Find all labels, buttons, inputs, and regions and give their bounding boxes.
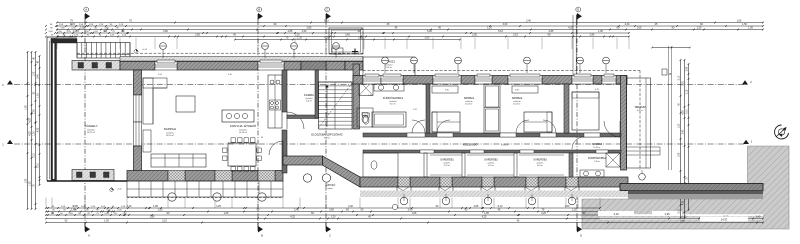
left dimension chain 1 — [26, 51, 29, 210]
svg-text:3,15: 3,15 — [34, 153, 36, 158]
wall kamra east — [315, 70, 319, 118]
svg-text:5,10: 5,10 — [38, 163, 40, 168]
svg-text:7,43 m²: 7,43 m² — [594, 160, 600, 163]
svg-text:18,37 m²: 18,37 m² — [87, 131, 95, 134]
south columns circles — [400, 194, 576, 205]
svg-text:SZOBA3: SZOBA3 — [592, 142, 603, 146]
svg-text:5,10: 5,10 — [498, 30, 503, 33]
vestibule south wall — [283, 156, 323, 165]
top extension lines — [57, 38, 629, 50]
svg-text:4,25: 4,25 — [683, 200, 685, 205]
bottom dimension chain 3 — [45, 212, 691, 216]
svg-text:2,15: 2,15 — [368, 95, 372, 97]
section axis B vertical — [257, 7, 263, 237]
room label ERKELY — [84, 123, 97, 134]
svg-text:5,10: 5,10 — [679, 75, 681, 80]
svg-text:parketta: parketta — [514, 100, 522, 103]
interior dim texts — [158, 74, 599, 161]
terasz2 dim extension lines — [651, 46, 691, 170]
right dimension chain 3 — [687, 63, 690, 211]
svg-text:2,40: 2,40 — [294, 209, 299, 212]
svg-text:A: A — [85, 8, 87, 12]
svg-text:16,35 m²: 16,35 m² — [593, 146, 601, 149]
svg-text:2,85: 2,85 — [472, 34, 477, 37]
svg-text:3,15: 3,15 — [679, 209, 681, 214]
svg-text:B: B — [261, 234, 263, 238]
wall stair east — [353, 64, 360, 129]
level diamond left — [134, 49, 148, 53]
porch columns mid — [303, 174, 330, 182]
svg-text:1,20: 1,20 — [331, 216, 336, 219]
dining table — [223, 138, 262, 171]
bottom dimension chain 1 — [45, 205, 601, 209]
svg-text:TÚZHELY: TÚZHELY — [84, 123, 97, 128]
szoba1 bed — [432, 112, 460, 132]
svg-text:18,32 m²: 18,32 m² — [501, 144, 509, 147]
svg-text:burkolat: burkolat — [306, 97, 313, 100]
entry door — [269, 141, 283, 155]
shower mid — [359, 81, 373, 96]
svg-text:1,05: 1,05 — [224, 212, 229, 215]
svg-text:1,50: 1,50 — [34, 109, 36, 114]
svg-text:1,20: 1,20 — [487, 27, 492, 30]
svg-text:9,17 m²: 9,17 m² — [390, 103, 397, 106]
door living-hall — [287, 112, 304, 129]
svg-text:5,10: 5,10 — [687, 109, 689, 114]
left dimension chain 3 — [34, 51, 37, 210]
svg-text:2,40: 2,40 — [526, 20, 531, 23]
svg-text:2,40: 2,40 — [625, 23, 630, 26]
label GARDROB2 — [484, 159, 498, 167]
dim labels over hatch — [598, 211, 748, 222]
compass symbol — [775, 125, 789, 139]
svg-text:parketta: parketta — [466, 100, 474, 103]
sofa south — [151, 154, 206, 167]
svg-text:1,50: 1,50 — [30, 181, 32, 186]
svg-text:SZOBA1: SZOBA1 — [464, 96, 475, 100]
eaves dashed line living — [77, 52, 363, 54]
plus marker eaves — [352, 49, 358, 55]
svg-text:burkolat: burkolat — [239, 129, 247, 132]
wall kamra south — [287, 115, 318, 119]
svg-text:3,60: 3,60 — [680, 220, 685, 223]
bedroom door arcs — [412, 120, 584, 149]
svg-text:1,20: 1,20 — [297, 37, 302, 40]
svg-text:1,05: 1,05 — [748, 27, 753, 30]
bedroom wing top wall — [353, 74, 627, 84]
svg-text:4,25: 4,25 — [568, 27, 573, 30]
svg-text:3,60: 3,60 — [163, 30, 168, 33]
svg-text:5,95 m²: 5,95 m² — [386, 66, 393, 69]
svg-text:1,50: 1,50 — [565, 205, 570, 208]
top left dense ticks b — [45, 28, 124, 31]
svg-text:1,20: 1,20 — [697, 27, 702, 30]
svg-text:14,37: 14,37 — [721, 218, 728, 222]
svg-text:1,20: 1,20 — [679, 123, 681, 128]
section axis C vertical — [325, 7, 331, 237]
room label SZOBA1 — [464, 96, 475, 106]
svg-text:KAMRA: KAMRA — [304, 93, 314, 97]
bottom extension lines — [46, 198, 600, 209]
bedroom wing east wall — [621, 76, 627, 171]
centerline axis 2 horizontal — [2, 80, 752, 87]
svg-text:2,85: 2,85 — [687, 66, 689, 71]
window bubbles top — [160, 43, 340, 58]
svg-text:C: C — [326, 8, 328, 12]
bath1 sinks — [374, 84, 404, 91]
szoba1 desk — [432, 86, 458, 93]
svg-text:3,60: 3,60 — [503, 23, 508, 26]
deck columns south — [168, 193, 266, 201]
top dimension chain 5 — [56, 34, 630, 38]
svg-text:D: D — [580, 234, 582, 238]
szoba3 bed — [572, 92, 599, 130]
svg-text:1,05: 1,05 — [598, 30, 603, 33]
svg-text:2,85: 2,85 — [358, 37, 363, 40]
wc mid — [357, 108, 373, 127]
eaves strip living — [120, 57, 363, 62]
svg-text:3,15: 3,15 — [162, 220, 167, 223]
room label SZOBA3 — [592, 142, 603, 149]
svg-text:3,60: 3,60 — [425, 37, 430, 40]
centerline axis 1 horizontal — [2, 140, 753, 147]
svg-text:5,10: 5,10 — [427, 30, 432, 33]
svg-text:1,50: 1,50 — [104, 220, 109, 223]
diagonal wall stair down — [323, 156, 361, 187]
terasz2 outline — [627, 78, 651, 168]
svg-text:parketta: parketta — [166, 132, 174, 135]
bottom left dense ticks b — [47, 210, 126, 213]
living top wall — [120, 60, 363, 70]
svg-text:1,85: 1,85 — [150, 216, 155, 219]
staircase — [319, 82, 353, 129]
deck dashed edge — [127, 197, 283, 199]
svg-text:1,85: 1,85 — [679, 152, 681, 157]
svg-text:KONYHA, ÉTKEZŐ: KONYHA, ÉTKEZŐ — [230, 123, 257, 128]
porch west wall thick — [51, 39, 57, 182]
corner sofa — [143, 78, 167, 124]
bottom left dense ticks a — [47, 206, 129, 209]
corridor north wall — [363, 133, 621, 137]
halo strips in hatch — [600, 214, 763, 219]
svg-text:16,13 m²: 16,13 m² — [513, 103, 521, 106]
svg-text:24,05 m²: 24,05 m² — [239, 131, 247, 134]
svg-text:4,13 m²: 4,13 m² — [488, 164, 494, 167]
svg-text:1,85: 1,85 — [26, 178, 28, 183]
svg-text:2,85: 2,85 — [307, 27, 312, 30]
svg-text:3,60: 3,60 — [329, 209, 334, 212]
circle marker bottom dim — [392, 204, 397, 209]
svg-text:4,25: 4,25 — [595, 89, 599, 91]
right dimension chain 2 — [683, 59, 686, 219]
svg-text:2,40: 2,40 — [38, 74, 40, 79]
room label KAMRA — [304, 93, 314, 103]
footing strip under bedroom wing — [360, 191, 628, 198]
porch post band top — [72, 61, 120, 71]
bottom left dense ticks c — [47, 213, 130, 216]
top dimension chain 4 — [56, 30, 630, 34]
kitchen counter — [268, 75, 282, 128]
svg-text:2,40: 2,40 — [348, 205, 353, 208]
terasz1 outline — [363, 57, 415, 76]
wall furdo2 west — [569, 153, 573, 177]
svg-text:4,25: 4,25 — [290, 216, 295, 219]
svg-text:4,25: 4,25 — [30, 131, 32, 136]
svg-text:KÖZLEKEDŐ: KÖZLEKEDŐ — [463, 144, 478, 147]
window bubble terasz2 — [639, 170, 646, 180]
szoba2 bed — [524, 112, 552, 132]
label LEPCSO — [325, 182, 336, 190]
svg-text:1,35: 1,35 — [664, 212, 670, 216]
deck grid south — [127, 181, 283, 197]
porch post band bottom — [72, 170, 114, 181]
bedroom wing bottom wall — [360, 177, 628, 194]
left dimension chain 4 — [38, 55, 41, 186]
svg-text:5,10: 5,10 — [324, 20, 329, 23]
top dimension chain 1 — [56, 20, 764, 24]
svg-text:1,85: 1,85 — [26, 105, 28, 110]
bath1 door — [412, 120, 425, 133]
svg-text:D: D — [577, 8, 579, 12]
svg-text:1,50: 1,50 — [34, 131, 36, 136]
svg-text:parketta: parketta — [537, 161, 544, 164]
bottom dimension chain 2 — [45, 209, 601, 213]
top left dense ticks a — [45, 24, 127, 27]
bottom dimension chain 4 — [45, 216, 764, 220]
chimney box top — [329, 28, 363, 54]
tv board — [143, 130, 151, 152]
svg-text:4,25: 4,25 — [324, 37, 329, 40]
porch bottom edge — [47, 180, 127, 182]
svg-text:2,85: 2,85 — [474, 205, 479, 208]
section axis A vertical — [84, 7, 90, 237]
svg-text:4,42: 4,42 — [228, 74, 232, 76]
svg-text:GARDRÓB1: GARDRÓB1 — [440, 159, 454, 162]
svg-text:38,11 m²: 38,11 m² — [166, 134, 174, 137]
level diamond bottom — [109, 188, 122, 192]
furdo2 sinks — [580, 170, 604, 177]
svg-text:3,60: 3,60 — [345, 34, 350, 37]
top dimension chain 2 — [56, 23, 764, 27]
svg-text:FÜRDŐSZOBA2: FÜRDŐSZOBA2 — [588, 157, 607, 160]
living bottom wall — [127, 171, 283, 182]
gardrob partitions — [424, 153, 517, 177]
room label FURDOSZOBA1 — [383, 95, 404, 106]
hatched ground terrace bottom-right — [582, 146, 789, 229]
section axis D vertical — [576, 7, 582, 237]
svg-text:4,25: 4,25 — [482, 216, 487, 219]
svg-text:+0,15: +0,15 — [142, 49, 148, 51]
svg-text:4,13 m²: 4,13 m² — [444, 164, 450, 167]
svg-text:1,05: 1,05 — [412, 212, 417, 215]
svg-text:2,40: 2,40 — [756, 216, 761, 219]
svg-text:2,85: 2,85 — [590, 34, 595, 37]
corridor south wall — [363, 150, 621, 153]
pergola trellis top-left — [77, 43, 130, 59]
eaves dashed right wing — [363, 71, 640, 171]
living west wall — [134, 70, 142, 173]
room label ELOSZOBA — [311, 132, 343, 140]
svg-text:6,95 m²: 6,95 m² — [637, 109, 643, 112]
svg-text:1,05: 1,05 — [34, 71, 36, 76]
svg-text:burkolat: burkolat — [390, 100, 397, 103]
svg-text:GARDRÓB2: GARDRÓB2 — [484, 159, 498, 162]
axis D extension double line — [573, 15, 576, 76]
right dimension chain 1 — [679, 59, 682, 219]
svg-text:2,85: 2,85 — [195, 34, 200, 37]
svg-text:3,42 m²: 3,42 m² — [306, 100, 313, 103]
footing band dark — [628, 191, 763, 195]
svg-text:A: A — [88, 234, 90, 238]
svg-text:3,85: 3,85 — [515, 90, 519, 92]
porch outline left — [47, 37, 77, 181]
kitchen island — [222, 110, 254, 122]
top dimension chain 3 — [56, 27, 764, 31]
porch top-left corner wall — [51, 39, 77, 44]
wall living-hall — [282, 70, 287, 173]
room label KONYHA — [230, 123, 257, 134]
svg-text:2,40: 2,40 — [683, 129, 685, 134]
svg-text:1,20: 1,20 — [308, 159, 312, 161]
svg-text:1,20: 1,20 — [38, 93, 40, 98]
bath1 tub — [372, 112, 406, 127]
svg-text:4,25: 4,25 — [683, 110, 685, 115]
room label SZOBA2 — [512, 96, 523, 106]
svg-text:1,50: 1,50 — [742, 23, 747, 26]
svg-text:2,85: 2,85 — [288, 30, 293, 33]
svg-text:4,25: 4,25 — [30, 118, 32, 123]
room label FURDOSZOBA2 — [588, 157, 607, 163]
svg-text:B: B — [258, 8, 260, 12]
label KOZLEKEDO — [463, 144, 509, 147]
top dimension chain 6 — [234, 37, 461, 41]
svg-text:90: 90 — [261, 137, 263, 139]
svg-text:1,20: 1,20 — [572, 209, 577, 212]
room label NAPPALI — [164, 127, 177, 137]
terasz2 steps — [627, 147, 661, 155]
svg-text:2,05: 2,05 — [158, 74, 162, 76]
svg-text:1,05: 1,05 — [637, 27, 642, 30]
svg-text:GARDRÓB3: GARDRÓB3 — [533, 159, 547, 162]
svg-text:TERASZ2: TERASZ2 — [634, 106, 646, 109]
svg-text:1,50: 1,50 — [158, 209, 163, 212]
svg-text:4,19: 4,19 — [613, 212, 619, 216]
svg-text:4,25: 4,25 — [541, 212, 546, 215]
window bubbles top right wing — [382, 57, 610, 73]
label TERASZ2 — [634, 106, 646, 112]
svg-text:2,40: 2,40 — [127, 205, 132, 208]
right small square marker — [662, 69, 672, 76]
svg-text:6,03 m²: 6,03 m² — [537, 164, 543, 167]
wall bath1-szoba1 — [426, 84, 430, 133]
left dimension chain 2 — [30, 51, 33, 210]
svg-text:1,50: 1,50 — [302, 30, 307, 33]
svg-text:1,50: 1,50 — [413, 109, 417, 111]
svg-text:NAPPALI: NAPPALI — [164, 127, 177, 131]
svg-text:4,25: 4,25 — [38, 127, 40, 132]
gardrob shelves — [430, 155, 564, 175]
small wc west — [363, 153, 398, 177]
svg-text:lejárat: lejárat — [327, 187, 333, 190]
footing band gray — [628, 194, 763, 199]
label GARDROB1 — [440, 159, 454, 167]
bottom dimension chain 5 — [45, 220, 764, 224]
svg-text:C: C — [329, 234, 331, 238]
svg-text:parketta: parketta — [488, 161, 495, 164]
svg-text:1,20: 1,20 — [683, 81, 685, 86]
bath1 wc — [363, 113, 370, 124]
svg-text:3,15: 3,15 — [513, 34, 518, 37]
svg-text:16,13 m²: 16,13 m² — [465, 103, 473, 106]
svg-text:9,44 m²: 9,44 m² — [324, 137, 331, 140]
top left dense ticks c — [45, 31, 128, 34]
svg-text:burkolat: burkolat — [386, 64, 393, 67]
svg-text:3,85: 3,85 — [445, 90, 449, 92]
closet strip szoba1-2 — [484, 84, 500, 133]
svg-text:SZOBA2: SZOBA2 — [512, 96, 523, 100]
coffee table — [176, 96, 195, 112]
szoba3 door terrace — [604, 121, 620, 137]
svg-text:burkolat: burkolat — [87, 129, 95, 132]
retaining wall bar — [620, 184, 763, 191]
top left dense ticks d — [45, 35, 131, 38]
label GARDROB3 — [533, 159, 547, 167]
svg-text:parketta: parketta — [444, 161, 451, 164]
svg-text:3,15: 3,15 — [687, 89, 689, 94]
szoba2 desk — [512, 86, 538, 93]
wall szoba2-szoba3 — [564, 84, 569, 133]
svg-text:4,25: 4,25 — [216, 205, 221, 208]
furdo2 shower — [606, 153, 620, 167]
